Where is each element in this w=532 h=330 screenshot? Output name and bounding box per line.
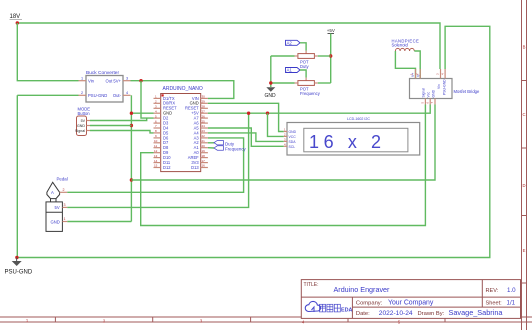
arduino left pin numbers [154, 95, 158, 168]
svg-text:2022-10-24: 2022-10-24 [379, 310, 413, 317]
svg-text:A2: A2 [287, 41, 293, 46]
ground flag PSU-GND [5, 258, 33, 276]
LCD pin 3 SDA [284, 140, 287, 142]
svg-text:16: 16 [202, 164, 206, 168]
svg-text:GND: GND [77, 124, 85, 128]
svg-text:Drawn By:: Drawn By: [418, 311, 445, 317]
junction +5V pedal branch [247, 112, 250, 115]
wire MODE 5V [90, 118, 147, 120]
svg-text:16 x 2: 16 x 2 [309, 132, 386, 152]
svg-text:24: 24 [202, 124, 206, 128]
potentiometer POT Frequency [295, 78, 321, 96]
svg-text:LCD-1602 I2C: LCD-1602 I2C [347, 117, 370, 121]
svg-text:E: E [523, 248, 526, 253]
junction pot duty right [329, 54, 332, 57]
bottom pin GND [434, 99, 436, 105]
svg-text:PSU-GND: PSU-GND [5, 270, 33, 276]
svg-text:10: 10 [154, 139, 158, 143]
wire pedal GND to vertical [67, 221, 131, 223]
svg-text:12: 12 [154, 149, 158, 153]
LCD pin 2 VCC [284, 135, 287, 137]
svg-text:D: D [522, 183, 525, 188]
svg-text:GND: GND [265, 93, 277, 99]
junction GND-return [130, 178, 133, 181]
svg-text:Arduino Engraver: Arduino Engraver [334, 285, 391, 294]
svg-text:17: 17 [202, 159, 206, 163]
pin 1 Vin [79, 80, 87, 82]
title block logo [305, 301, 352, 313]
net flag texts [225, 141, 247, 151]
LCD-1602 I2C module [284, 117, 420, 155]
svg-text:Signal: Signal [422, 88, 426, 98]
svg-text:Frequency: Frequency [225, 146, 247, 151]
svg-text:Savage_Sabrina: Savage_Sabrina [449, 308, 504, 317]
svg-text:Button: Button [78, 111, 91, 116]
svg-text:+5V: +5V [327, 28, 335, 33]
pin 3 Out 5V+ [123, 80, 131, 82]
pin 2 PSU-GND [79, 94, 87, 96]
sheet frame right border [522, 0, 527, 330]
svg-text:D13: D13 [191, 165, 199, 170]
wire PSU-GND bottom rail [17, 26, 490, 257]
svg-text:VCC: VCC [289, 135, 297, 139]
wire 18V rail top [17, 23, 440, 69]
arduino right pin numbers [202, 95, 206, 168]
svg-text:21: 21 [202, 139, 206, 143]
svg-text:TITLE:: TITLE: [304, 282, 319, 288]
wire solenoid left to mosfet [395, 51, 415, 79]
svg-text:REV:: REV: [486, 288, 499, 294]
wire arduino D9 to mosfet Signal [141, 105, 426, 226]
pin Signal [87, 130, 91, 132]
LCD pin 4 SCL [284, 145, 287, 147]
net flag A1 [286, 68, 301, 73]
wire A1 to pot freq wiper [300, 70, 306, 78]
pin 4 Out- [123, 94, 131, 96]
wire pot duty right [318, 55, 331, 57]
title block [301, 280, 520, 319]
wire pot freq left [271, 82, 295, 84]
wire A2 to pot duty wiper [300, 43, 306, 51]
svg-text:Duty: Duty [300, 64, 310, 69]
net flag 18V [10, 14, 23, 20]
svg-text:23: 23 [202, 129, 206, 133]
junction pots GND [269, 81, 272, 84]
wire PSU-GND left vertical [16, 95, 18, 257]
svg-text:Sheet:: Sheet: [486, 301, 503, 307]
svg-text:GND: GND [51, 220, 60, 225]
svg-text:2: 2 [81, 91, 83, 95]
pin 5V [87, 120, 91, 122]
arduino right pins [201, 98, 208, 167]
ground flag GND pots [265, 87, 277, 99]
bottom pin Signal [424, 99, 426, 105]
junction GND-arduino [130, 112, 133, 115]
svg-text:5V: 5V [55, 205, 60, 210]
svg-text:5V: 5V [81, 119, 86, 123]
svg-text:22: 22 [202, 134, 206, 138]
svg-text:GND: GND [289, 130, 297, 134]
svg-text:30: 30 [202, 95, 206, 99]
sheet frame row labels [522, 45, 525, 254]
arduino left pin names [163, 96, 177, 170]
wire buck Out5V to vertical and arduino VIN [131, 81, 234, 99]
svg-text:11: 11 [154, 144, 157, 148]
svg-text:1/1: 1/1 [507, 300, 516, 307]
IC U1 ARDUINO_NANO [161, 86, 203, 172]
svg-text:Vcc: Vcc [427, 92, 431, 98]
pushbutton MODE [75, 107, 90, 136]
svg-text:Out 5V+: Out 5V+ [106, 79, 122, 84]
wire pedal A to arduino A3 [67, 138, 243, 192]
jack tip shape [47, 182, 60, 198]
svg-text:4: 4 [126, 91, 128, 95]
junction at 18V flag [16, 21, 19, 24]
svg-text:27: 27 [202, 109, 206, 113]
wire +5V to pots [330, 34, 332, 84]
wire solenoid right to mosfet [414, 51, 420, 79]
wire GND return to mosfet [131, 105, 435, 181]
junction +5V LCD branch [266, 112, 269, 115]
bottom pin Vcc [429, 99, 431, 105]
svg-text:14: 14 [154, 159, 158, 163]
svg-text:PSU-GND: PSU-GND [443, 79, 447, 95]
svg-text:B: B [523, 45, 526, 50]
svg-text:ARDUINO_NANO: ARDUINO_NANO [163, 86, 203, 92]
svg-text:3: 3 [126, 76, 128, 80]
net flag Duty [214, 141, 223, 145]
svg-text:Solenoid: Solenoid [392, 43, 409, 48]
wire buck Out- to PSU-GND vertical [17, 94, 78, 96]
svg-text:Your Company: Your Company [388, 300, 434, 307]
sheet frame column labels [26, 318, 401, 325]
wire +5V rail [208, 105, 430, 114]
mosfet bridge module [410, 69, 481, 105]
top pin V+ [415, 69, 417, 79]
svg-text:Signal: Signal [75, 129, 85, 133]
junction buck 5V branch [139, 79, 142, 82]
svg-text:Mosfet Bridge: Mosfet Bridge [454, 89, 481, 94]
wire pedal 5V to +5V rail [67, 113, 248, 207]
wire MODE Signal to D5 [90, 131, 154, 133]
svg-text:1: 1 [81, 76, 83, 80]
svg-text:13: 13 [154, 154, 158, 158]
wire GND branch to arduino GND pin [131, 112, 153, 114]
svg-text:Company:: Company: [356, 301, 383, 307]
wire 18V down to buck Vin [17, 23, 78, 81]
power flag +5V [327, 28, 335, 33]
wire buck Out- GND vertical [130, 95, 132, 221]
buck converter module [79, 70, 131, 102]
wire arduino A2 to Duty flag [208, 142, 214, 144]
wire pot freq right [318, 82, 331, 84]
junction PSU-GND corner [15, 256, 18, 259]
wire arduino A5 to LCD SCL [208, 128, 284, 146]
net flag Frequency [214, 146, 223, 150]
svg-text:SDA: SDA [289, 140, 297, 144]
svg-text:SCL: SCL [289, 145, 296, 149]
wire pot duty left [271, 55, 295, 57]
jack body [46, 202, 62, 232]
svg-text:Frequency: Frequency [300, 91, 321, 96]
arduino left pins [154, 98, 161, 167]
svg-text:15: 15 [154, 164, 158, 168]
net flag A2 [286, 40, 301, 45]
top pin PSU-GND [444, 69, 446, 79]
arduino right pin names [185, 96, 199, 170]
svg-text:GND: GND [432, 89, 436, 97]
svg-text:29: 29 [202, 100, 206, 104]
svg-text:25: 25 [202, 119, 206, 123]
sheet frame bottom border [0, 317, 532, 322]
svg-text:18: 18 [202, 154, 206, 158]
svg-text:PSU-GND: PSU-GND [88, 93, 107, 98]
inductor HANDPIECE Solenoid [392, 39, 420, 52]
svg-text:1.0: 1.0 [507, 287, 516, 294]
svg-text:Vin: Vin [88, 79, 95, 84]
top pin Vin [440, 69, 442, 79]
svg-text:C: C [522, 112, 525, 117]
svg-text:D12: D12 [163, 165, 171, 170]
wire arduino GND to LCD GND [208, 103, 284, 131]
svg-text:A1: A1 [287, 68, 293, 73]
svg-text:3: 3 [64, 203, 66, 207]
wire pots left vertical [270, 56, 272, 87]
wire +5V to LCD VCC [268, 113, 284, 136]
wire buck 5V down to arduino D2 [141, 81, 154, 118]
svg-text:Date:: Date: [356, 311, 370, 317]
svg-text:Out-: Out- [113, 93, 122, 98]
svg-text:28: 28 [202, 105, 206, 109]
svg-text:26: 26 [202, 114, 206, 118]
svg-text:Pedal: Pedal [57, 177, 68, 182]
svg-text:20: 20 [202, 144, 206, 148]
svg-text:19: 19 [202, 149, 206, 153]
svg-text:Vin: Vin [437, 84, 441, 89]
top pin V- [419, 69, 421, 79]
wire arduino A4 to LCD SDA [208, 133, 284, 142]
svg-text:A: A [51, 190, 54, 195]
LCD pin 1 GND [284, 131, 287, 133]
junction GND-mode [130, 124, 133, 127]
wire arduino A1 to Frequency flag [208, 147, 214, 149]
potentiometer POT Duty [295, 51, 318, 69]
svg-text:EDA: EDA [341, 308, 352, 314]
svg-text:2: 2 [63, 188, 65, 192]
wire MODE GND [90, 125, 131, 127]
connector Pedal [46, 177, 68, 232]
pin GND [87, 125, 91, 127]
svg-text:1: 1 [64, 217, 66, 221]
